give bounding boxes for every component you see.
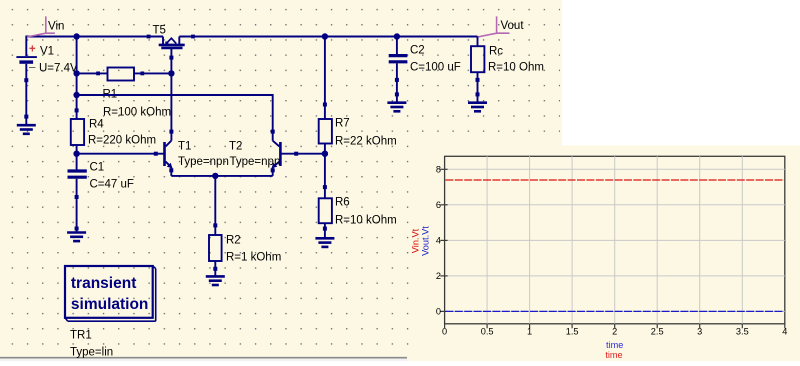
svg-text:R7: R7 xyxy=(335,118,350,130)
svg-text:TR1: TR1 xyxy=(70,330,92,342)
svg-text:R=1 kOhm: R=1 kOhm xyxy=(226,252,281,264)
svg-text:8: 8 xyxy=(436,164,441,174)
junction R4 bottom xyxy=(73,151,79,157)
svg-text:R=10 kOhm: R=10 kOhm xyxy=(335,215,397,227)
svg-text:Vout: Vout xyxy=(501,20,525,32)
svg-text:4: 4 xyxy=(436,236,441,246)
diagram vertical gridlines xyxy=(487,156,742,323)
resistor R1 xyxy=(77,68,172,119)
diagram x ticks xyxy=(445,324,785,329)
transistor T2 xyxy=(229,141,298,176)
svg-text:Vout.Vt: Vout.Vt xyxy=(421,226,431,256)
svg-text:R=220 kOhm: R=220 kOhm xyxy=(88,135,156,147)
wire T1 collector vertical xyxy=(170,73,172,140)
junction node at x77 top wire xyxy=(73,33,79,39)
svg-text:C1: C1 xyxy=(90,162,105,174)
simulation TR1 labels xyxy=(70,330,113,359)
svg-text:Vin: Vin xyxy=(48,21,64,33)
svg-text:1: 1 xyxy=(527,326,532,336)
svg-text:0: 0 xyxy=(436,307,441,317)
svg-text:T5: T5 xyxy=(153,25,166,37)
junction T5 base / R1 right xyxy=(168,70,174,76)
svg-text:0: 0 xyxy=(442,326,447,336)
wire vertical x77 xyxy=(76,37,78,120)
svg-text:3: 3 xyxy=(697,326,702,336)
svg-text:–: – xyxy=(29,62,36,74)
svg-text:+: + xyxy=(29,44,36,56)
svg-text:1.5: 1.5 xyxy=(566,326,579,336)
svg-text:U=7.4V: U=7.4V xyxy=(39,63,78,75)
ground under C2 xyxy=(387,103,406,112)
ground under V1 xyxy=(17,125,36,134)
svg-text:R4: R4 xyxy=(89,119,104,131)
diagram y axis labels xyxy=(436,164,441,316)
svg-text:time: time xyxy=(606,340,623,350)
svg-text:2.5: 2.5 xyxy=(651,326,664,336)
node Vin marker xyxy=(27,16,65,37)
svg-text:C=47 uF: C=47 uF xyxy=(90,179,134,191)
svg-text:4: 4 xyxy=(782,326,787,336)
svg-text:3.5: 3.5 xyxy=(736,326,749,336)
wire T1 base xyxy=(77,153,158,155)
wire T2 base to R7 node xyxy=(296,153,325,155)
wire emitters horizontal xyxy=(171,175,272,177)
node Vout marker xyxy=(478,16,525,37)
ground under Rc xyxy=(468,103,487,112)
wire top main left segment xyxy=(25,36,163,38)
transient simulation box xyxy=(65,266,156,321)
svg-text:T1: T1 xyxy=(178,141,191,153)
svg-text:Type=npn: Type=npn xyxy=(230,156,281,168)
trace Vin.Vt red xyxy=(445,179,784,181)
svg-text:Type=lin: Type=lin xyxy=(70,347,113,359)
svg-text:R=22 kOhm: R=22 kOhm xyxy=(335,136,397,148)
ground under C1 xyxy=(67,233,86,242)
svg-text:C=100 uF: C=100 uF xyxy=(410,62,461,74)
resistor Rc xyxy=(471,37,544,102)
diagram frame xyxy=(445,156,785,323)
svg-text:2: 2 xyxy=(436,271,441,281)
svg-text:T2: T2 xyxy=(229,141,242,153)
junction top wire C2 xyxy=(394,33,400,39)
wire top main right segment xyxy=(179,36,477,38)
svg-text:R=100 kOhm: R=100 kOhm xyxy=(103,107,171,119)
trace Vout.Vt blue xyxy=(445,310,784,312)
resistor R2 xyxy=(209,176,281,276)
svg-text:time: time xyxy=(605,350,622,360)
svg-text:transient: transient xyxy=(71,275,136,292)
resistor R6 xyxy=(319,154,397,238)
resistor R4 xyxy=(71,108,156,169)
white clipped area top right xyxy=(562,0,800,145)
ground under R2 xyxy=(206,276,225,285)
svg-text:simulation: simulation xyxy=(71,296,149,313)
window bottom strip xyxy=(0,358,407,361)
wire long horizontal to T2 collector xyxy=(77,95,273,141)
svg-text:R2: R2 xyxy=(226,235,241,247)
svg-text:Rc: Rc xyxy=(489,46,503,58)
svg-text:C2: C2 xyxy=(410,45,425,57)
junction emitters xyxy=(212,173,218,179)
transistor T1 xyxy=(158,141,229,176)
diagram y ticks xyxy=(440,169,447,311)
junction R7 bottom xyxy=(322,151,328,157)
junction top wire R7 xyxy=(322,33,328,39)
svg-text:R=10 Ohm: R=10 Ohm xyxy=(488,62,544,74)
capacitor C1 xyxy=(68,162,134,232)
svg-text:Type=npn: Type=npn xyxy=(178,156,229,168)
svg-text:2: 2 xyxy=(612,326,617,336)
svg-text:0.5: 0.5 xyxy=(481,326,494,336)
junction R1 left xyxy=(73,70,79,76)
svg-text:V1: V1 xyxy=(40,46,54,58)
ground under R6 xyxy=(315,238,334,247)
diagram x axis labels xyxy=(442,326,787,336)
diagram horizontal gridlines xyxy=(445,169,785,311)
voltage source V1 xyxy=(16,37,78,125)
svg-text:Vin.Vt: Vin.Vt xyxy=(411,228,421,253)
svg-text:R6: R6 xyxy=(335,197,350,209)
resistor R7 xyxy=(319,37,397,154)
junction long wire xyxy=(73,92,79,98)
transistor T5 xyxy=(147,25,195,74)
svg-text:6: 6 xyxy=(436,200,441,210)
capacitor C2 xyxy=(389,37,461,102)
